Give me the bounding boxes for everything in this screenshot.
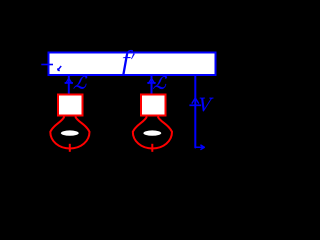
lamp L1 bottom stub [69,144,71,152]
arrow on wire L2 [148,78,155,83]
left tick arrow on box [41,64,53,66]
lamp L1 socket square [58,95,83,116]
lamp L2 bottom stub [151,144,153,152]
V measurement line [194,76,196,148]
lamp L1 filament ellipse [61,130,79,135]
wire to lamp L2 [151,76,153,95]
arrow on wire L1 [65,78,72,83]
small arrow inside box [58,66,62,71]
lamp L2 filament ellipse [143,130,161,135]
wire to lamp L1 [68,76,70,95]
arrow on V line [192,98,199,104]
label script-L 2 [153,76,167,89]
box U1 (black-box element f') [49,53,216,76]
V line bottom arrow to right [195,145,204,149]
lamp L2 bulb glass [133,117,172,149]
lamp L2 socket square [141,95,166,116]
label V [200,98,214,112]
label f' [122,45,135,77]
lamp L1 bulb glass [50,117,89,149]
label script-L 1 [74,76,88,89]
